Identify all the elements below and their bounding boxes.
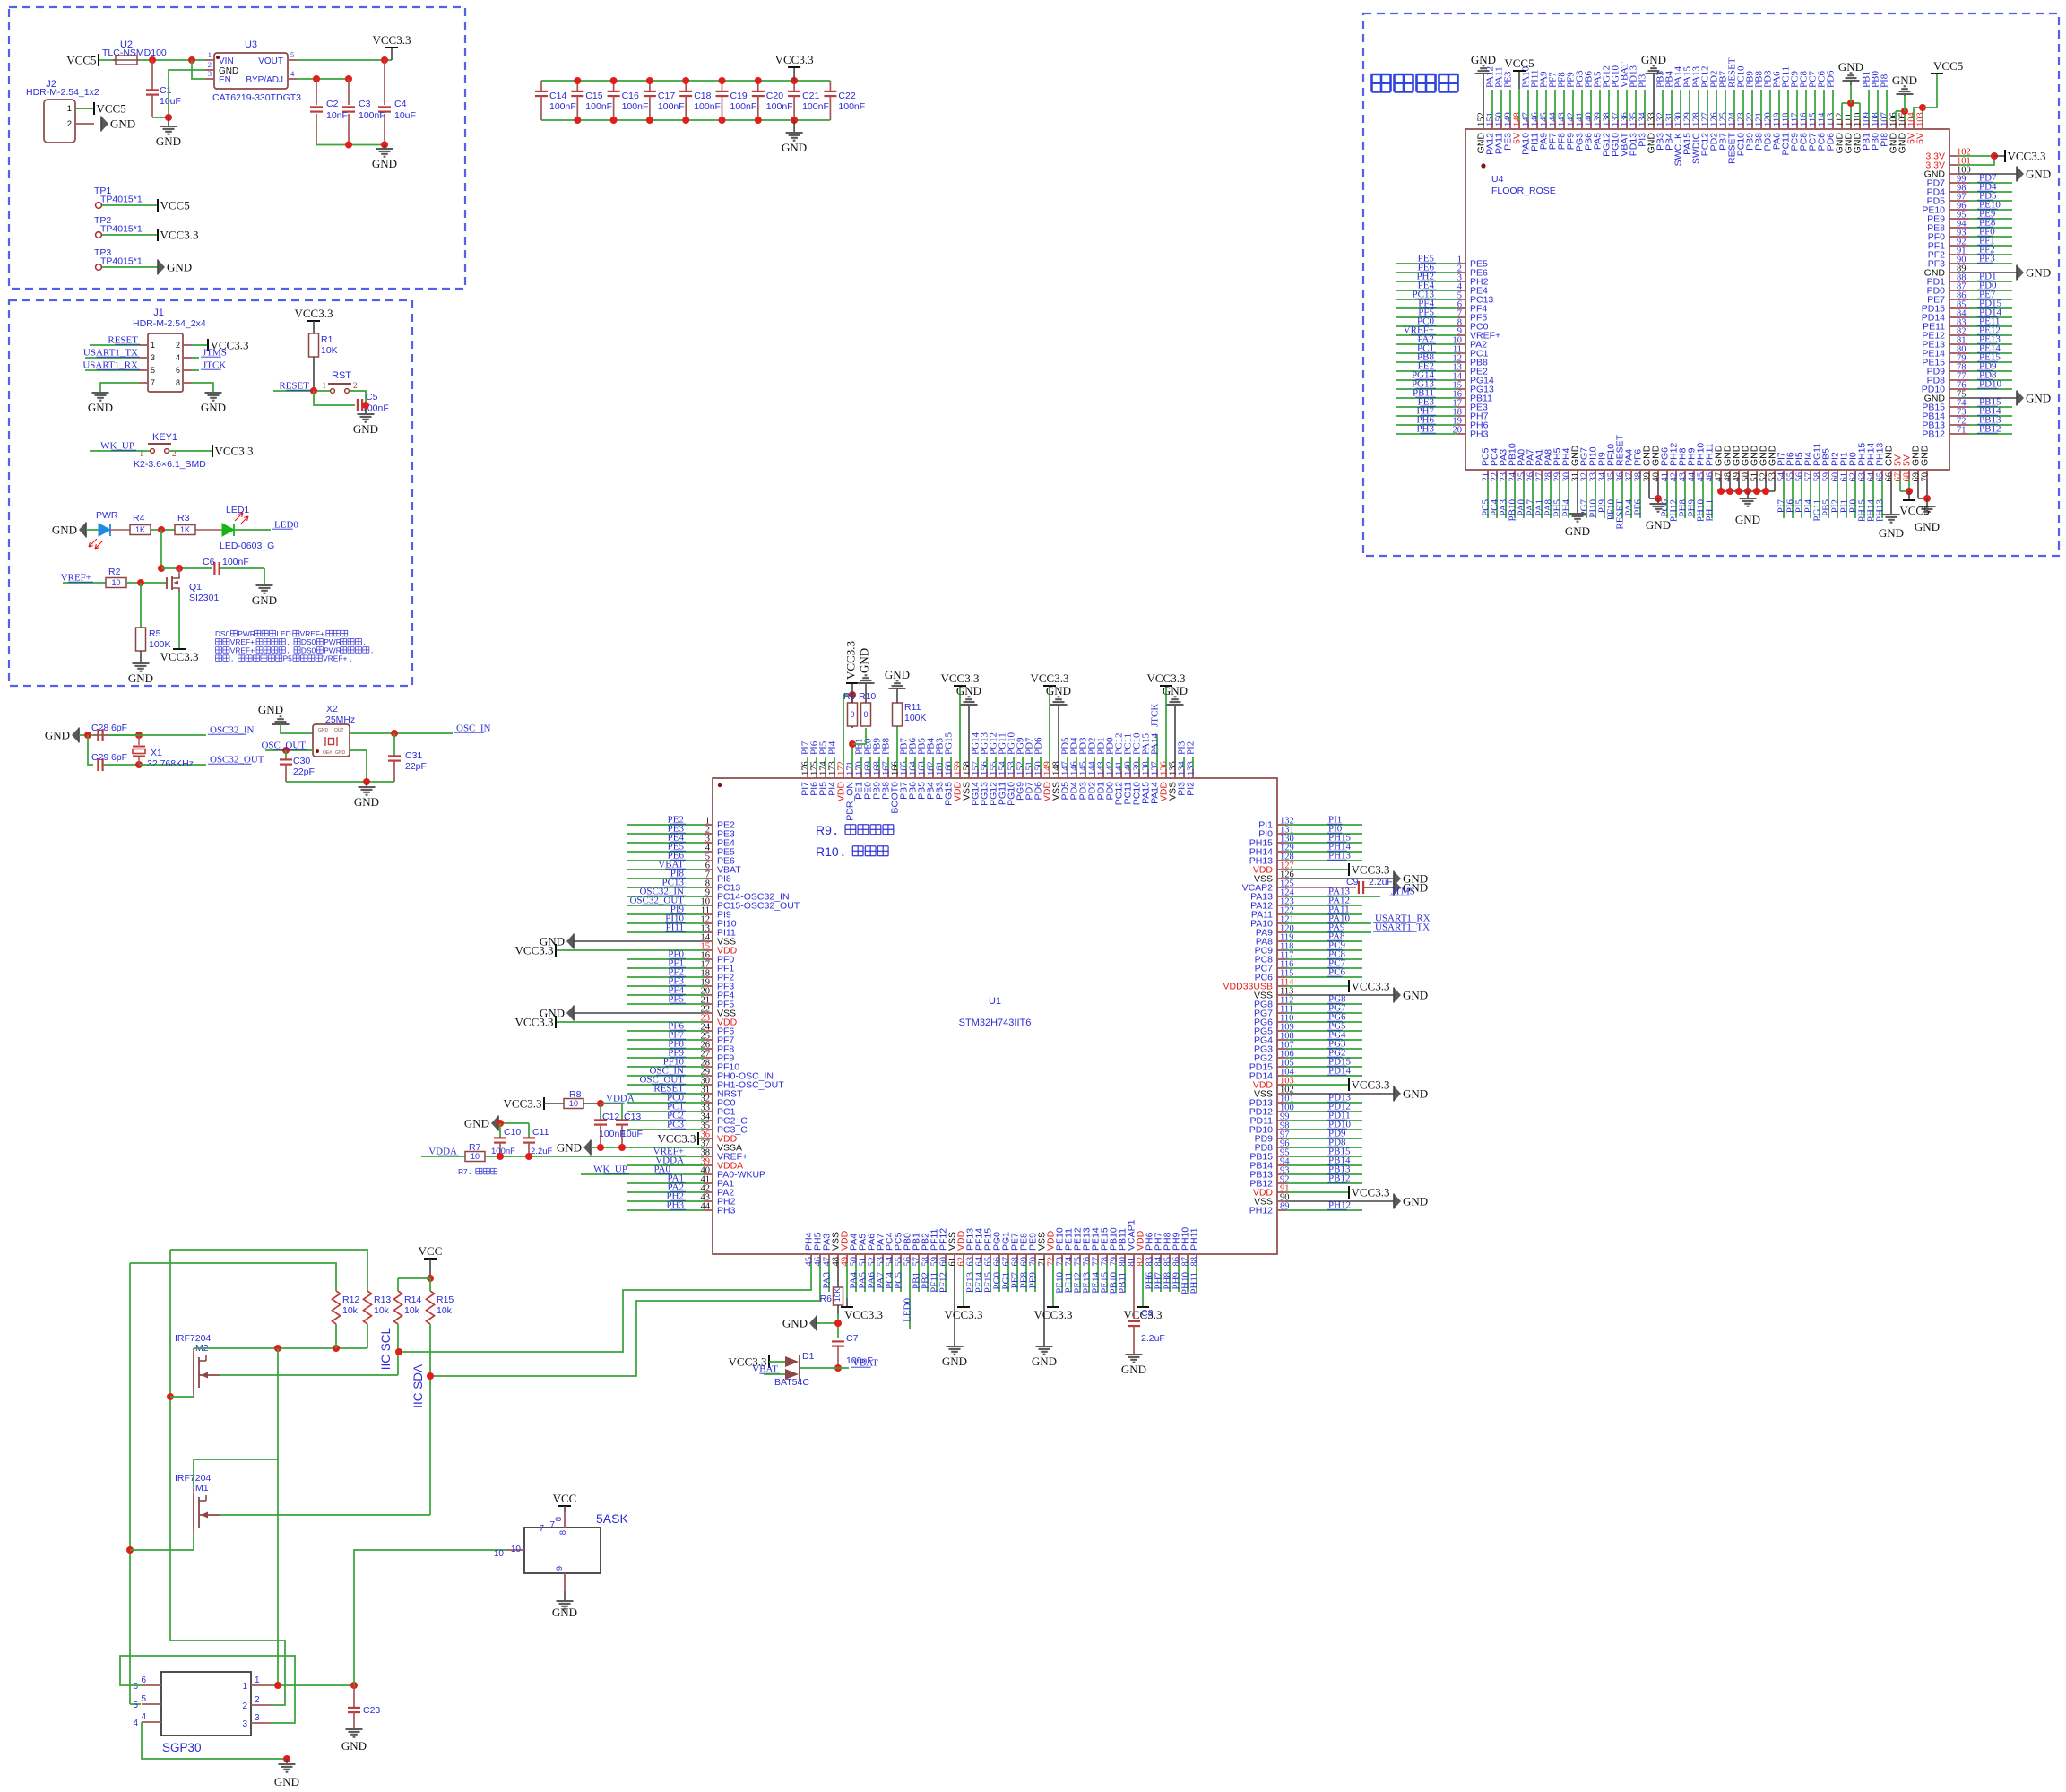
svg-text:C3: C3 [359,99,371,109]
svg-text:GND: GND [88,401,113,414]
svg-text:LED-0603_G: LED-0603_G [220,541,274,551]
svg-text:VCC3.3: VCC3.3 [658,1132,696,1146]
svg-text:VCC3.3: VCC3.3 [373,33,411,47]
svg-text:10k: 10k [437,1305,453,1316]
svg-text:R2: R2 [108,567,121,577]
svg-text:2: 2 [255,1695,260,1705]
svg-text:GND: GND [1879,526,1904,540]
svg-text:2.2uF: 2.2uF [531,1147,552,1156]
svg-text:PD10: PD10 [1979,379,2002,390]
svg-text:C18: C18 [694,91,711,101]
svg-text:2: 2 [353,381,358,390]
svg-text:PC3: PC3 [667,1120,684,1130]
svg-text:C12: C12 [602,1112,619,1122]
svg-text:VCC5: VCC5 [160,199,190,212]
svg-text:10k: 10k [404,1305,420,1316]
svg-text:R14: R14 [404,1294,421,1305]
svg-text:R12: R12 [342,1294,359,1305]
svg-text:C5: C5 [366,392,378,403]
svg-text:VCC5: VCC5 [1899,504,1929,517]
svg-text:100nF: 100nF [730,101,757,112]
svg-text:GND: GND [335,750,346,756]
svg-text:C29: C29 [91,752,108,763]
svg-text:X1: X1 [151,748,162,758]
svg-text:GND: GND [782,1317,808,1330]
svg-text:GND: GND [1838,60,1863,74]
svg-text:PI3: PI3 [1638,74,1648,88]
svg-text:OUT: OUT [334,728,344,733]
svg-text:PH3: PH3 [666,1200,684,1211]
svg-text:C10: C10 [504,1127,521,1138]
svg-text:R15: R15 [437,1294,454,1305]
svg-text:10: 10 [494,1549,505,1559]
svg-text:32.768KHz: 32.768KHz [147,758,194,769]
svg-text:6: 6 [133,1682,138,1692]
svg-text:1: 1 [323,381,327,390]
svg-text:VCC3.3: VCC3.3 [1147,671,1186,685]
svg-text:R11: R11 [904,702,921,713]
svg-text:PH12: PH12 [1249,1206,1273,1216]
svg-text:VCC3.3: VCC3.3 [504,1097,542,1111]
svg-text:GND: GND [1915,520,1940,533]
svg-text:10K: 10K [833,1288,842,1302]
svg-text:10K: 10K [321,345,338,356]
svg-text:PH12: PH12 [1328,1200,1351,1211]
svg-text:GND: GND [858,648,871,673]
svg-text:HDR-M-2.54_2x4: HDR-M-2.54_2x4 [133,318,206,329]
svg-text:GND: GND [1646,518,1671,532]
svg-text:PI4: PI4 [827,740,838,755]
svg-text:D1: D1 [802,1351,815,1362]
svg-text:FLOOR_ROSE: FLOOR_ROSE [1491,186,1556,196]
svg-text:GND: GND [1032,1355,1057,1368]
svg-text:C30: C30 [293,756,310,766]
svg-text:100nF: 100nF [802,101,829,112]
svg-text:PC6: PC6 [1328,967,1345,978]
svg-text:R3: R3 [177,513,190,524]
svg-text:PB11: PB11 [1118,1272,1128,1294]
svg-text:PH3: PH3 [1416,424,1434,435]
svg-text:USART1_TX: USART1_TX [83,348,138,359]
svg-text:4: 4 [176,353,180,362]
svg-text:PF3: PF3 [1979,254,1995,264]
svg-text:R7: R7 [469,1142,481,1153]
svg-text:C21: C21 [802,91,819,101]
svg-text:GND: GND [1735,513,1760,526]
svg-text:10: 10 [569,1099,578,1108]
svg-text:LED1: LED1 [226,505,249,515]
svg-text:VCC3.3: VCC3.3 [775,53,814,66]
svg-text:HDR-M-2.54_1x2: HDR-M-2.54_1x2 [26,87,99,98]
svg-text:PA3: PA3 [822,1272,833,1289]
svg-text:C1: C1 [160,85,172,96]
svg-text:TP4015*1: TP4015*1 [100,224,143,235]
svg-text:5: 5 [151,366,155,375]
svg-text:VCC3.3: VCC3.3 [295,307,333,320]
svg-text:GND: GND [1565,524,1590,538]
svg-text:PH3: PH3 [717,1206,736,1216]
svg-text:JTCK: JTCK [1150,704,1161,727]
svg-text:PD6: PD6 [1826,70,1837,88]
svg-text:100nF: 100nF [658,101,685,112]
svg-text:GND: GND [1046,684,1071,697]
svg-text:U4: U4 [1491,174,1504,185]
svg-text:USART1_RX: USART1_RX [82,360,138,371]
svg-text:PB12: PB12 [1979,424,2001,435]
svg-text:PH11: PH11 [1705,499,1716,522]
svg-text:LED: LED [276,629,290,638]
svg-text:R13: R13 [374,1294,391,1305]
svg-text:GND: GND [201,401,226,414]
svg-text:PF6: PF6 [1633,499,1644,515]
svg-text:OE#: OE# [323,750,332,756]
svg-text:VOUT: VOUT [258,56,283,66]
svg-text:TP4015*1: TP4015*1 [100,195,143,205]
svg-text:VCC3.3: VCC3.3 [945,1308,983,1321]
svg-text:6: 6 [141,1675,146,1685]
svg-text:LED0: LED0 [274,520,298,531]
svg-text:5ASK: 5ASK [596,1511,628,1526]
svg-text:PD6: PD6 [1033,737,1044,755]
svg-text:3: 3 [208,69,212,78]
svg-text:VCC3.3: VCC3.3 [1352,1078,1390,1092]
svg-text:RESET: RESET [279,381,309,392]
svg-text:M1: M1 [195,1483,209,1493]
svg-text:X2: X2 [326,704,338,714]
svg-text:OSC_IN: OSC_IN [456,723,491,734]
svg-text:VCC5: VCC5 [1504,56,1534,70]
svg-text:GND: GND [252,593,277,607]
svg-text:0: 0 [850,710,854,719]
svg-text:VCC5: VCC5 [1933,59,1963,73]
svg-text:C16: C16 [622,91,639,101]
svg-text:GND: GND [341,1739,367,1753]
svg-text:100nF: 100nF [549,101,576,112]
svg-text:5: 5 [133,1701,138,1710]
svg-text:GND: GND [1641,53,1666,66]
svg-text:GND: GND [318,728,329,733]
svg-text:GND: GND [557,1141,582,1155]
svg-text:GND: GND [353,422,378,436]
svg-text:10: 10 [511,1545,522,1554]
svg-text:GND: GND [128,671,153,685]
svg-text:GND: GND [354,795,379,809]
svg-text:GND: GND [1403,1195,1428,1208]
svg-text:U1: U1 [989,996,1001,1007]
svg-text:J1: J1 [153,307,164,318]
svg-text:PI2: PI2 [1186,782,1197,796]
svg-text:GND: GND [552,1606,577,1619]
svg-text:RST: RST [332,370,351,381]
svg-text:GND: GND [372,157,397,170]
svg-text:VCC3.3: VCC3.3 [2008,150,2046,163]
svg-text:GND: GND [258,703,283,716]
svg-text:103: 103 [1916,112,1926,126]
svg-text:PWR: PWR [96,510,118,521]
svg-text:VDDA: VDDA [428,1147,457,1157]
svg-text:LED0: LED0 [903,1298,913,1322]
svg-text:DS0: DS0 [215,629,230,638]
svg-text:9: 9 [555,1566,565,1571]
svg-text:2: 2 [176,341,180,350]
svg-text:GND: GND [156,134,181,148]
svg-text:JTMS: JTMS [203,348,227,359]
svg-text:R1: R1 [321,334,333,345]
svg-text:PC5: PC5 [894,1272,904,1289]
svg-text:8: 8 [554,1517,564,1521]
svg-text:IIC SDA: IIC SDA [411,1364,425,1408]
svg-text:PD14: PD14 [1328,1066,1352,1077]
svg-text:VCC3.3: VCC3.3 [160,650,199,663]
svg-text:C31: C31 [405,750,422,761]
svg-text:5V: 5V [1915,133,1926,144]
svg-text:3: 3 [242,1719,247,1729]
svg-text:VCC3.3: VCC3.3 [844,641,858,680]
svg-text:R9: R9 [843,691,856,702]
svg-text:PB12: PB12 [1328,1173,1350,1184]
svg-text:PB8: PB8 [881,738,892,755]
svg-text:1K: 1K [135,525,145,534]
svg-text:GND: GND [942,1355,967,1368]
svg-text:GND: GND [885,668,910,681]
svg-text:GND: GND [464,1117,489,1130]
svg-text:PF5: PF5 [668,994,684,1005]
svg-text:R10: R10 [859,691,876,702]
svg-text:VCC3.3: VCC3.3 [515,944,554,957]
svg-text:PH3: PH3 [1470,429,1489,440]
svg-text:VCC3.3: VCC3.3 [1352,980,1390,993]
svg-text:P5: P5 [283,654,293,663]
svg-text:RESET: RESET [108,335,138,346]
svg-text:R7: R7 [458,1167,468,1176]
svg-text:VCC5: VCC5 [97,102,126,116]
svg-text:100nF: 100nF [766,101,793,112]
svg-text:C13: C13 [624,1112,641,1122]
svg-text:VCC3.3: VCC3.3 [160,229,199,242]
svg-text:GND: GND [110,117,135,131]
svg-text:1: 1 [242,1682,247,1692]
svg-text:C19: C19 [730,91,748,101]
svg-text:C28: C28 [91,723,108,733]
svg-text:VCC3.3: VCC3.3 [215,445,254,458]
svg-text:GND: GND [52,524,77,537]
svg-text:1K: 1K [180,525,190,534]
svg-text:100nF: 100nF [359,110,385,121]
svg-text:EN: EN [219,75,231,85]
svg-text:VCC3.3: VCC3.3 [1034,1308,1073,1321]
svg-text:VCC3.3: VCC3.3 [1352,1186,1390,1199]
svg-text:GND: GND [167,261,192,274]
svg-text:PH13: PH13 [1328,851,1352,861]
svg-text:Q1: Q1 [189,582,202,593]
svg-text:100K: 100K [904,713,927,723]
svg-text:5: 5 [290,50,294,59]
svg-text:GND: GND [274,1775,299,1788]
svg-text:7: 7 [151,378,155,387]
svg-text:PG15: PG15 [944,732,955,755]
svg-text:10uF: 10uF [160,96,181,107]
svg-text:10uF: 10uF [394,110,416,121]
svg-text:C22: C22 [838,91,855,101]
svg-text:GND: GND [1163,684,1188,697]
svg-text:OSC32_OUT: OSC32_OUT [210,755,264,766]
svg-text:8: 8 [558,1530,568,1535]
svg-text:10k: 10k [342,1305,359,1316]
svg-text:OSC_OUT: OSC_OUT [261,740,306,751]
svg-text:R8: R8 [569,1089,582,1100]
svg-text:PA14: PA14 [1150,732,1161,755]
svg-text:8: 8 [176,378,180,387]
svg-text:1: 1 [67,104,72,114]
svg-text:100nF: 100nF [622,101,649,112]
svg-text:GND: GND [2026,392,2051,405]
svg-text:VIN: VIN [219,56,234,66]
svg-text:C20: C20 [766,91,783,101]
svg-text:22pF: 22pF [293,766,315,777]
svg-text:100nF: 100nF [694,101,721,112]
svg-text:GND: GND [1920,445,1931,466]
svg-text:GND: GND [1403,989,1428,1002]
svg-text:R4: R4 [133,513,145,524]
svg-text:PE9: PE9 [1028,1272,1039,1289]
svg-text:2.2uF: 2.2uF [1141,1333,1165,1344]
svg-text:GND: GND [45,729,70,742]
svg-text:7: 7 [539,1524,544,1534]
svg-text:4: 4 [141,1712,146,1722]
svg-text:C6: C6 [203,557,215,567]
svg-text:WK_UP: WK_UP [593,1164,627,1175]
svg-text:USART1_TX: USART1_TX [1375,922,1430,933]
svg-text:PI8: PI8 [1880,74,1890,88]
svg-text:GND: GND [956,684,981,697]
svg-text:C7: C7 [846,1333,859,1344]
svg-text:VCC3.3: VCC3.3 [1031,671,1069,685]
svg-text:100nF: 100nF [838,101,865,112]
svg-text:VCC3.3: VCC3.3 [1352,863,1390,877]
svg-text:2: 2 [242,1701,247,1711]
svg-text:2: 2 [67,119,72,129]
svg-text:6pF: 6pF [111,752,127,763]
svg-text:JTMS: JTMS [1391,887,1415,897]
svg-text:R5: R5 [149,628,161,639]
svg-text:C2: C2 [326,99,339,109]
svg-text:R10: R10 [816,844,839,859]
svg-text:VREF+: VREF+ [61,573,91,584]
svg-text:GND: GND [1471,53,1496,66]
svg-text:22pF: 22pF [405,761,427,772]
svg-text:PI11: PI11 [666,922,684,933]
svg-text:R9: R9 [816,823,832,837]
svg-text:133: 133 [1187,761,1197,775]
svg-text:1: 1 [151,341,155,350]
svg-text:PB12: PB12 [1922,429,1945,440]
svg-text:R6: R6 [820,1294,833,1304]
svg-text:2.2uF: 2.2uF [1369,877,1393,887]
svg-text:K2-3.6×6.1_SMD: K2-3.6×6.1_SMD [134,459,206,470]
svg-text:100nF: 100nF [585,101,612,112]
svg-text:10: 10 [471,1152,480,1161]
svg-text:BYP/ADJ: BYP/ADJ [246,75,283,85]
svg-text:PH11: PH11 [1189,1227,1200,1251]
svg-text:SI2301: SI2301 [189,593,219,603]
svg-text:VCC5: VCC5 [66,54,96,67]
svg-text:6pF: 6pF [111,723,127,733]
svg-text:C11: C11 [532,1127,549,1138]
svg-text:U3: U3 [245,39,257,50]
svg-text:C8: C8 [1141,1308,1154,1319]
svg-text:VBAT: VBAT [752,1364,778,1375]
svg-text:3: 3 [151,353,155,362]
svg-text:GND: GND [782,141,807,154]
svg-text:VREF+: VREF+ [323,654,347,663]
svg-text:C4: C4 [394,99,407,109]
svg-text:BAT54C: BAT54C [774,1377,809,1388]
svg-text:PI2: PI2 [1186,741,1197,755]
svg-text:IIC SCL: IIC SCL [379,1328,393,1371]
svg-text:GND: GND [1892,74,1917,87]
svg-text:6: 6 [176,366,180,375]
svg-text:VDDA: VDDA [606,1094,635,1104]
svg-text:TP4015*1: TP4015*1 [100,256,143,267]
svg-text:C17: C17 [658,91,675,101]
svg-text:JTCK: JTCK [203,360,226,371]
svg-text:C23: C23 [363,1705,380,1716]
svg-text:VCC3.3: VCC3.3 [515,1016,554,1029]
svg-text:0: 0 [863,710,868,719]
svg-text:KEY1: KEY1 [152,432,177,443]
svg-text:4: 4 [133,1718,138,1728]
svg-text:2: 2 [208,60,212,69]
svg-text:5: 5 [141,1694,146,1704]
svg-text:PE3: PE3 [1503,71,1514,88]
svg-text:1: 1 [208,50,212,59]
svg-text:OSC32_IN: OSC32_IN [210,725,255,736]
svg-text:PH13: PH13 [1875,499,1886,523]
svg-text:10: 10 [111,578,120,587]
svg-text:1: 1 [255,1675,260,1685]
svg-text:VCC: VCC [419,1244,443,1258]
svg-text:VREF+: VREF+ [230,645,255,654]
svg-text:VBAT: VBAT [852,1358,878,1369]
svg-text:10k: 10k [374,1305,390,1316]
svg-text:VCC: VCC [553,1492,577,1505]
svg-text:DS0: DS0 [301,645,316,654]
svg-text:VCC3.3: VCC3.3 [844,1308,883,1321]
svg-text:GND: GND [2026,168,2051,181]
svg-text:C15: C15 [585,91,602,101]
svg-text:10nF: 10nF [326,110,348,121]
svg-text:GND: GND [2026,266,2051,280]
svg-text:CAT6219-330TDGT3: CAT6219-330TDGT3 [212,92,301,103]
svg-text:GND: GND [1121,1363,1146,1376]
svg-text:GND: GND [1403,1087,1428,1101]
svg-text:70: 70 [1921,472,1931,482]
svg-text:STM32H743IIT6: STM32H743IIT6 [959,1017,1032,1028]
svg-text:10uF: 10uF [621,1129,643,1139]
svg-text:C14: C14 [549,91,566,101]
svg-text:88: 88 [1190,1257,1200,1267]
svg-text:SGP30: SGP30 [162,1741,202,1754]
svg-text:VCC3.3: VCC3.3 [941,671,980,685]
svg-text:100K: 100K [149,639,171,650]
svg-text:PF12: PF12 [938,1272,949,1293]
svg-text:PH11: PH11 [1189,1272,1200,1294]
svg-text:100nF: 100nF [222,557,249,567]
svg-text:WK_UP: WK_UP [100,441,134,452]
svg-text:3: 3 [255,1713,260,1723]
